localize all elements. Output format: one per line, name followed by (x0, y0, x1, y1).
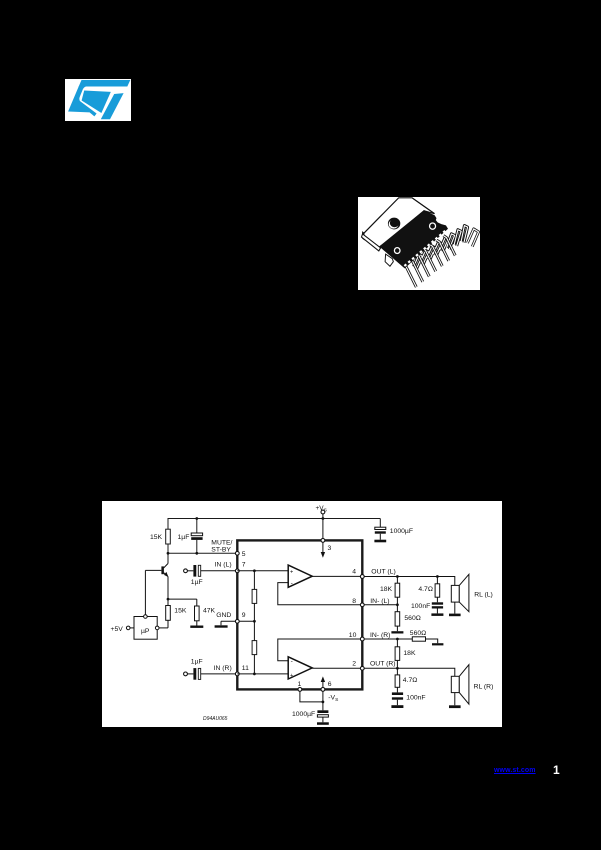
far right pin tubes (467, 229, 478, 247)
svg-text:100nF: 100nF (406, 694, 425, 701)
pin shoulder notches (404, 231, 446, 267)
svg-text:D94AU065: D94AU065 (203, 716, 228, 722)
OUT(R) wire (362, 668, 455, 676)
op-amp A1 (L) (288, 565, 312, 587)
svg-text:MUTE/: MUTE/ (211, 539, 232, 546)
svg-text:6: 6 (328, 681, 332, 688)
svg-text:RL (R): RL (R) (474, 684, 494, 691)
wire +Vs rail (168, 519, 380, 554)
resistor R10 4.7ohm (R) (395, 668, 400, 692)
svg-text:1: 1 (298, 681, 302, 688)
ground bottom cap (317, 722, 329, 725)
pin 1 (298, 681, 325, 703)
ground 100nF (L) (431, 613, 443, 616)
heatsink tab (363, 198, 435, 248)
svg-text:4.7Ω: 4.7Ω (403, 677, 418, 684)
ground 47K (190, 626, 203, 628)
resistor R6 internal bottom (252, 621, 257, 674)
ground pin9 (215, 625, 228, 627)
svg-text:8: 8 (352, 598, 356, 605)
tab mounting hole (388, 218, 400, 230)
wire 1uF mute cap branches (196, 519, 198, 534)
front row pins (long leads) (402, 236, 456, 287)
recess circle left (394, 248, 400, 254)
pin 11 (235, 672, 239, 676)
svg-text:47K: 47K (203, 608, 216, 615)
pin 10 (362, 638, 397, 640)
wire mute line (168, 552, 237, 554)
svg-text:OUT (R): OUT (R) (370, 661, 396, 668)
ground 560ohm (L) (391, 631, 403, 633)
speaker RL(L) (449, 574, 469, 616)
resistor R2 15K lower (166, 599, 171, 628)
pin 2 (360, 666, 364, 670)
svg-text:4.7Ω: 4.7Ω (418, 586, 433, 593)
+5V terminal (111, 626, 135, 633)
ground 100nF (R) (391, 705, 403, 708)
resistor R9 4.7ohm (L) (435, 577, 440, 603)
ST logo (65, 79, 131, 121)
input terminal IN(R) (184, 672, 194, 676)
svg-text:15K: 15K (174, 608, 187, 615)
svg-text:OUT (L): OUT (L) (371, 569, 395, 576)
svg-text:10: 10 (349, 632, 357, 639)
wire pin11 to op-amp (237, 673, 288, 675)
capacitor C5 1000uF top (375, 519, 386, 540)
resistor R1 15K (166, 529, 171, 544)
capacitor C1 1uF mute (191, 533, 202, 540)
tab left end face (362, 231, 365, 240)
resistor R11 560ohm (L) (395, 605, 400, 631)
www.st.com link (494, 767, 536, 774)
svg-text:4: 4 (352, 569, 356, 576)
tab right edge line (412, 198, 434, 214)
svg-text:15K: 15K (150, 534, 163, 541)
resistor R12 560ohm (R) horizontal (397, 637, 437, 643)
svg-text:+: + (290, 673, 293, 679)
resistor R8 18K (R) (395, 639, 400, 668)
svg-text:2: 2 (352, 661, 356, 668)
svg-text:1µF: 1µF (191, 579, 203, 586)
capacitor C3 1uF IN(R) (193, 668, 237, 680)
svg-text:GND: GND (216, 612, 231, 619)
svg-text:IN (R): IN (R) (214, 665, 232, 672)
svg-text:µP: µP (141, 628, 150, 635)
svg-text:1µF: 1µF (178, 534, 190, 541)
svg-text:9: 9 (242, 612, 246, 619)
resistor R5 internal top (252, 571, 257, 622)
input terminal IN(L) (184, 569, 194, 573)
svg-text:11: 11 (242, 665, 249, 672)
svg-text:-: - (291, 580, 293, 587)
svg-text:5: 5 (242, 551, 246, 558)
svg-text:+: + (290, 569, 293, 575)
svg-text:560Ω: 560Ω (410, 630, 426, 637)
Multiwatt15 package illustration (358, 197, 480, 290)
node dots top rail (195, 517, 198, 520)
pin 7 (235, 569, 239, 573)
pin 4 (360, 575, 364, 579)
back row pins (hairpins) (414, 226, 468, 268)
svg-text:RL (L): RL (L) (474, 591, 493, 598)
feedback wire (L) (278, 583, 363, 605)
svg-text:7: 7 (242, 562, 246, 569)
page number 1 (553, 763, 560, 777)
svg-text:IN (L): IN (L) (215, 562, 232, 569)
wire pin7 to op-amp (237, 570, 288, 572)
output wire (R) (312, 667, 362, 669)
svg-text:18K: 18K (380, 586, 393, 593)
transistor Q1 (145, 553, 168, 614)
pin 5 (235, 551, 239, 555)
svg-text:IN- (L): IN- (L) (370, 598, 389, 605)
svg-text:IN- (R): IN- (R) (370, 632, 390, 639)
svg-text:1000µF: 1000µF (390, 528, 413, 535)
svg-text:18K: 18K (403, 650, 416, 657)
svg-text:ST-BY: ST-BY (211, 547, 231, 554)
pin 6 (321, 676, 339, 703)
capacitor C8 100nF (R) (392, 692, 403, 705)
ground 560ohm (R) (432, 643, 443, 645)
pin 8 (362, 604, 397, 606)
capacitor C6 1000uF bottom (317, 702, 328, 722)
recess circle right (430, 223, 436, 229)
capacitor C7 100nF (L) (432, 602, 443, 613)
output wire (L) (312, 575, 362, 577)
ground top cap (374, 540, 386, 543)
OUT(L) wire (362, 577, 455, 586)
svg-text:100nF: 100nF (411, 603, 430, 610)
front corner detail (385, 254, 393, 266)
tab front strip (361, 234, 380, 251)
pin 3 (321, 519, 332, 558)
svg-text:1µF: 1µF (191, 658, 203, 665)
resistor R3 47K (168, 599, 199, 625)
op-amp A2 (R) (288, 657, 312, 679)
IC box U1 (237, 540, 362, 689)
svg-text:+5V: +5V (111, 626, 124, 633)
application circuit schematic (102, 501, 502, 727)
plastic body (380, 211, 447, 268)
svg-text:3: 3 (328, 545, 332, 552)
GND wire pin 9 (221, 621, 254, 625)
pin 9 (235, 619, 239, 623)
capacitor C2 1uF IN(L) (193, 565, 237, 577)
svg-text:-: - (291, 658, 293, 665)
+Vs terminal (316, 505, 327, 519)
speaker RL(R) (449, 665, 469, 708)
svg-text:560Ω: 560Ω (404, 615, 420, 622)
resistor R7 18K (L) (395, 577, 400, 605)
feedback wire (R) (278, 639, 363, 661)
microprocessor box (134, 615, 168, 640)
svg-text:1000µF: 1000µF (292, 711, 315, 718)
